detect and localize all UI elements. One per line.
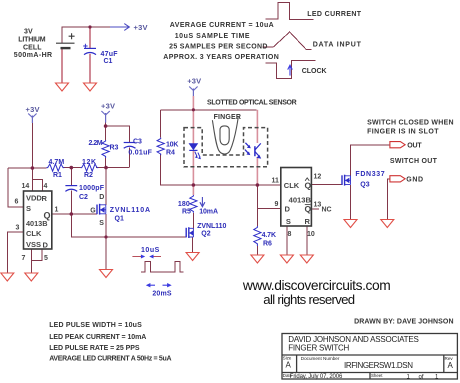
svg-text:R: R bbox=[305, 217, 311, 226]
svg-text:7: 7 bbox=[22, 255, 26, 262]
wire Q1 drain bbox=[105, 168, 107, 205]
resistor R5 bbox=[190, 195, 197, 213]
resistor R4 bbox=[157, 138, 164, 156]
port OUT bbox=[390, 142, 405, 148]
svg-text:NC: NC bbox=[322, 206, 332, 213]
IC U1A pin numbers bbox=[15, 183, 59, 262]
annotation LED pulse specs bbox=[49, 322, 171, 362]
value label R6 bbox=[262, 232, 276, 248]
svg-text:CLK: CLK bbox=[284, 181, 300, 190]
svg-text:R6: R6 bbox=[263, 241, 272, 248]
wire CLK pin3 to ground bbox=[7, 232, 23, 273]
svg-text:S: S bbox=[286, 217, 291, 226]
svg-text:DRAWN BY: DAVE JOHNSON: DRAWN BY: DAVE JOHNSON bbox=[354, 319, 454, 326]
20mS dimension arrows bbox=[146, 283, 172, 287]
ground at pin7 bbox=[25, 273, 38, 281]
wire R5 bottom to Q2 drain bbox=[192, 213, 194, 228]
value label C1 bbox=[101, 51, 119, 65]
finger outline bbox=[212, 117, 238, 154]
svg-text:C1: C1 bbox=[104, 58, 113, 65]
ground at Q3 source bbox=[344, 220, 357, 228]
wire pins 14-4 bridge bbox=[32, 180, 42, 192]
svg-text:Q2: Q2 bbox=[201, 231, 210, 238]
ground at pin10 bbox=[300, 255, 313, 263]
wire detector cathode bbox=[256, 157, 258, 185]
svg-text:13: 13 bbox=[314, 202, 322, 209]
transistor Q3 FDN337 bbox=[342, 175, 351, 186]
svg-text:AVERAGE LED CURRENT A 50Hz = 5: AVERAGE LED CURRENT A 50Hz = 5uA bbox=[49, 355, 171, 362]
svg-text:10mA: 10mA bbox=[199, 209, 218, 216]
svg-text:14: 14 bbox=[22, 183, 30, 190]
svg-text:ZVNL110A: ZVNL110A bbox=[110, 207, 150, 214]
finger nail bbox=[220, 126, 229, 145]
value label R5 bbox=[178, 201, 191, 216]
svg-text:1000pF: 1000pF bbox=[79, 185, 105, 192]
port GND bbox=[390, 176, 405, 182]
svg-text:ZVNL110: ZVNL110 bbox=[197, 223, 226, 230]
svg-text:6: 6 bbox=[15, 199, 19, 206]
svg-text:+3V: +3V bbox=[134, 23, 148, 32]
svg-text:500mA-HR: 500mA-HR bbox=[14, 52, 52, 59]
IC U1B pin names bbox=[284, 180, 312, 226]
svg-text:4013B: 4013B bbox=[26, 219, 48, 228]
wire C2 top branch bbox=[70, 168, 72, 186]
svg-text:all rights reserved: all rights reserved bbox=[263, 292, 355, 307]
wire R3 bottom to rail bbox=[105, 158, 107, 168]
svg-text:DATA INPUT: DATA INPUT bbox=[313, 42, 362, 49]
wire pin8 to ground bbox=[286, 226, 288, 255]
svg-text:G: G bbox=[90, 208, 96, 215]
svg-text:SLOTTED OPTICAL SENSOR: SLOTTED OPTICAL SENSOR bbox=[207, 100, 297, 107]
capacitor C1 bbox=[83, 44, 96, 55]
svg-text:IRFINGERSW1.DSN: IRFINGERSW1.DSN bbox=[344, 361, 413, 370]
svg-text:3V: 3V bbox=[24, 28, 33, 35]
annotation average current bbox=[163, 22, 279, 61]
svg-text:4.7K: 4.7K bbox=[262, 232, 276, 239]
svg-text:APPROX. 3 YEARS OPERATION: APPROX. 3 YEARS OPERATION bbox=[163, 54, 279, 61]
wire pin10 to ground bbox=[306, 226, 308, 255]
svg-text:VDD: VDD bbox=[26, 193, 42, 202]
wire Q2 source to ground bbox=[192, 237, 194, 253]
svg-text:LITHIUM: LITHIUM bbox=[18, 37, 45, 44]
svg-text:CLOCK: CLOCK bbox=[302, 68, 327, 75]
svg-text:D: D bbox=[43, 240, 49, 249]
wire R4 bottom to CLK rail bbox=[161, 154, 281, 185]
wire +3V node2 down to R1 rail bbox=[31, 123, 33, 180]
10uS dimension arrows bbox=[132, 255, 161, 259]
svg-text:0.01uF: 0.01uF bbox=[128, 150, 152, 157]
svg-text:FINGER IS IN SLOT: FINGER IS IN SLOT bbox=[367, 129, 439, 136]
svg-text:+3V: +3V bbox=[101, 102, 115, 111]
svg-text:D: D bbox=[285, 205, 291, 214]
power +3V arrow above IC1 bbox=[28, 114, 36, 124]
svg-text:S: S bbox=[99, 220, 104, 227]
svg-text:LED CURRENT: LED CURRENT bbox=[307, 11, 362, 18]
wire Q3 drain to OUT port bbox=[351, 145, 390, 176]
svg-text:C3: C3 bbox=[133, 139, 142, 146]
power +3V arrow above R3 bbox=[101, 111, 109, 123]
svg-text:LED PULSE WIDTH = 10uS: LED PULSE WIDTH = 10uS bbox=[49, 322, 142, 329]
power +3V arrow above LED bbox=[189, 87, 197, 97]
title block frame bbox=[282, 334, 457, 380]
svg-text:8: 8 bbox=[288, 231, 292, 238]
svg-text:Q: Q bbox=[305, 180, 312, 190]
waveform clock pulse bbox=[265, 60, 315, 78]
svg-text:4: 4 bbox=[44, 183, 48, 190]
svg-text:LED PEAK CURRENT = 10mA: LED PEAK CURRENT = 10mA bbox=[49, 334, 146, 341]
title block text bbox=[283, 335, 454, 381]
capacitor C3 bbox=[124, 143, 136, 149]
photodiode D2 detector bbox=[245, 143, 261, 159]
svg-text:11: 11 bbox=[272, 178, 280, 185]
svg-text:R: R bbox=[42, 194, 48, 203]
junction node dots bbox=[31, 25, 260, 238]
svg-text:Q1: Q1 bbox=[115, 216, 124, 223]
ground at battery bbox=[56, 83, 69, 91]
label Q2 bbox=[197, 223, 226, 238]
svg-text:Sheet: Sheet bbox=[371, 373, 383, 378]
wire detector node down to D pin bbox=[257, 185, 280, 209]
wire C2 bottom to Q node bbox=[70, 190, 72, 214]
wire Q1 source to ground bbox=[105, 214, 107, 270]
resistor R1 bbox=[47, 164, 65, 171]
svg-text:FINGER: FINGER bbox=[214, 114, 241, 121]
wire R1 to R2 segment bbox=[63, 167, 81, 169]
label Q3 bbox=[355, 171, 384, 188]
svg-text:10K: 10K bbox=[166, 141, 178, 148]
wire Q pin1 to Q1 gate bbox=[52, 213, 97, 215]
wire GND port to ground bbox=[387, 179, 390, 220]
svg-text:Friday, July 07, 2006: Friday, July 07, 2006 bbox=[290, 374, 343, 380]
svg-text:www.discovercircuits.com: www.discovercircuits.com bbox=[242, 278, 391, 293]
svg-text:Rev: Rev bbox=[445, 356, 454, 361]
wire LED cathode down bbox=[192, 150, 194, 195]
svg-text:Document Number: Document Number bbox=[301, 356, 340, 361]
value label R3 bbox=[89, 140, 119, 152]
ground at R6 bbox=[251, 255, 264, 263]
wire R1 rail left segment bbox=[8, 167, 47, 169]
value label C3 bbox=[128, 139, 152, 157]
ground at pin8 bbox=[280, 255, 293, 263]
transistor Q2 ZVNL110 bbox=[186, 227, 193, 238]
value label C2 bbox=[79, 185, 105, 201]
power +3V arrow right at battery bbox=[110, 24, 129, 31]
svg-text:180: 180 bbox=[178, 201, 190, 208]
battery value label bbox=[14, 28, 52, 59]
svg-text:10uS: 10uS bbox=[141, 247, 160, 254]
ground at GND port bbox=[381, 220, 394, 228]
resistor R3 bbox=[102, 140, 109, 158]
value label R1 bbox=[49, 159, 65, 179]
svg-text:10uS SAMPLE TIME: 10uS SAMPLE TIME bbox=[175, 33, 250, 40]
IC U1B 4013B box bbox=[281, 168, 312, 227]
label Q1 bbox=[110, 207, 150, 223]
svg-text:12K: 12K bbox=[82, 159, 96, 166]
svg-text:SWITCH OUT: SWITCH OUT bbox=[390, 158, 438, 165]
svg-text:5: 5 bbox=[44, 255, 48, 262]
svg-text:C2: C2 bbox=[79, 194, 88, 201]
wire C1 top branch bbox=[89, 27, 91, 48]
svg-text:FINGER SWITCH: FINGER SWITCH bbox=[288, 344, 349, 353]
svg-text:GND: GND bbox=[406, 176, 423, 183]
wire IC2 pin13 NC stub bbox=[311, 208, 319, 210]
wire R2 right to C3 corner bbox=[96, 167, 129, 169]
clock rising edge arrow bbox=[288, 65, 293, 75]
svg-text:1: 1 bbox=[55, 207, 59, 214]
svg-text:A: A bbox=[448, 361, 454, 370]
svg-text:AVERAGE CURRENT = 10uA: AVERAGE CURRENT = 10uA bbox=[170, 22, 274, 29]
svg-text:+3V: +3V bbox=[187, 76, 201, 85]
svg-text:Q3: Q3 bbox=[360, 182, 369, 189]
wire battery top to +3V rail bbox=[62, 27, 110, 43]
wire pin5 bridge bbox=[31, 249, 42, 260]
IC U1B Qbar overbar bbox=[305, 204, 311, 206]
R5 current down arrow bbox=[200, 197, 205, 207]
wire C1 bottom to ground bbox=[89, 54, 91, 83]
svg-text:47uF: 47uF bbox=[101, 51, 119, 58]
svg-text:A: A bbox=[286, 361, 292, 370]
wire Q node down to Q2 gate rail bbox=[71, 214, 186, 237]
wire left rail down to S pin bbox=[8, 168, 24, 207]
svg-text:OUT: OUT bbox=[407, 143, 422, 150]
capacitor C2 bbox=[65, 186, 77, 192]
wire Q3 source to ground bbox=[350, 185, 352, 220]
IC U1A 4013B box bbox=[24, 191, 52, 249]
wire R6 top bbox=[256, 209, 258, 226]
svg-text:FDN337: FDN337 bbox=[355, 171, 384, 178]
wire R6 bottom to ground bbox=[256, 246, 258, 255]
svg-text:DAVID JOHNSON AND ASSOCIATES: DAVID JOHNSON AND ASSOCIATES bbox=[288, 335, 419, 344]
battery BT1 3V lithium cell bbox=[56, 33, 75, 48]
svg-text:20mS: 20mS bbox=[152, 291, 171, 298]
ground at Q2 source bbox=[186, 253, 199, 261]
wire R4 branch vertical top bbox=[160, 110, 162, 138]
value label R2 bbox=[82, 159, 96, 179]
svg-text:+3V: +3V bbox=[26, 105, 40, 114]
ground at C1 bbox=[84, 83, 97, 91]
wire detector anode bbox=[256, 110, 258, 143]
svg-text:D: D bbox=[99, 194, 104, 201]
LED D1 emitter bbox=[189, 144, 201, 160]
svg-text:9: 9 bbox=[275, 201, 279, 208]
wire C3 bottom bbox=[129, 148, 131, 168]
svg-text:3: 3 bbox=[16, 225, 20, 232]
resistor R6 bbox=[254, 226, 261, 246]
svg-text:CELL: CELL bbox=[23, 45, 42, 52]
svg-text:Q: Q bbox=[305, 204, 312, 214]
waveform data input triangle bbox=[263, 32, 312, 50]
svg-text:CLK: CLK bbox=[26, 229, 42, 238]
wire C3 branch top bbox=[106, 126, 130, 142]
waveform LED current pulse bbox=[265, 3, 313, 20]
resistor R2 bbox=[81, 164, 99, 171]
IC U1B pin numbers bbox=[272, 174, 332, 239]
value label R4 bbox=[166, 141, 178, 156]
svg-text:R2: R2 bbox=[84, 172, 93, 179]
svg-text:VSS: VSS bbox=[26, 240, 41, 249]
ground at Q1 source bbox=[100, 270, 113, 278]
svg-text:SWITCH CLOSED WHEN: SWITCH CLOSED WHEN bbox=[367, 119, 454, 126]
svg-text:4.7M: 4.7M bbox=[49, 159, 65, 166]
svg-text:2.2M: 2.2M bbox=[89, 140, 103, 147]
svg-text:R1: R1 bbox=[53, 172, 62, 179]
IC U1A pin names bbox=[26, 193, 51, 249]
wire pin7 to ground bbox=[30, 249, 32, 273]
svg-text:S: S bbox=[26, 204, 31, 213]
svg-text:10: 10 bbox=[307, 231, 315, 238]
IC U1B Q caret marker bbox=[305, 178, 309, 181]
svg-text:25 SAMPLES PER SECOND: 25 SAMPLES PER SECOND bbox=[169, 43, 267, 50]
ground at CLK pin3 bbox=[1, 273, 14, 281]
wire +3V node3 down to R3 bbox=[105, 123, 107, 140]
waveform LED pulse train bbox=[141, 262, 184, 273]
svg-text:LED PULSE RATE = 25 PPS: LED PULSE RATE = 25 PPS bbox=[49, 345, 140, 352]
slotted optical sensor dashed outline bbox=[184, 128, 268, 167]
transistor Q1 ZVNL110A bbox=[97, 204, 106, 215]
svg-text:R4: R4 bbox=[166, 150, 175, 157]
wire IC2 Q pin12 to Q3 gate bbox=[311, 184, 342, 186]
svg-text:12: 12 bbox=[314, 174, 322, 181]
svg-text:R3: R3 bbox=[110, 145, 119, 152]
svg-text:R5: R5 bbox=[182, 209, 191, 216]
transistor Q1 terminal letters bbox=[90, 194, 104, 227]
wire battery negative to ground bbox=[61, 48, 63, 83]
wire +3V to LED bbox=[192, 96, 194, 144]
wire sensor top rail bbox=[161, 109, 257, 111]
svg-text:of: of bbox=[419, 374, 424, 380]
